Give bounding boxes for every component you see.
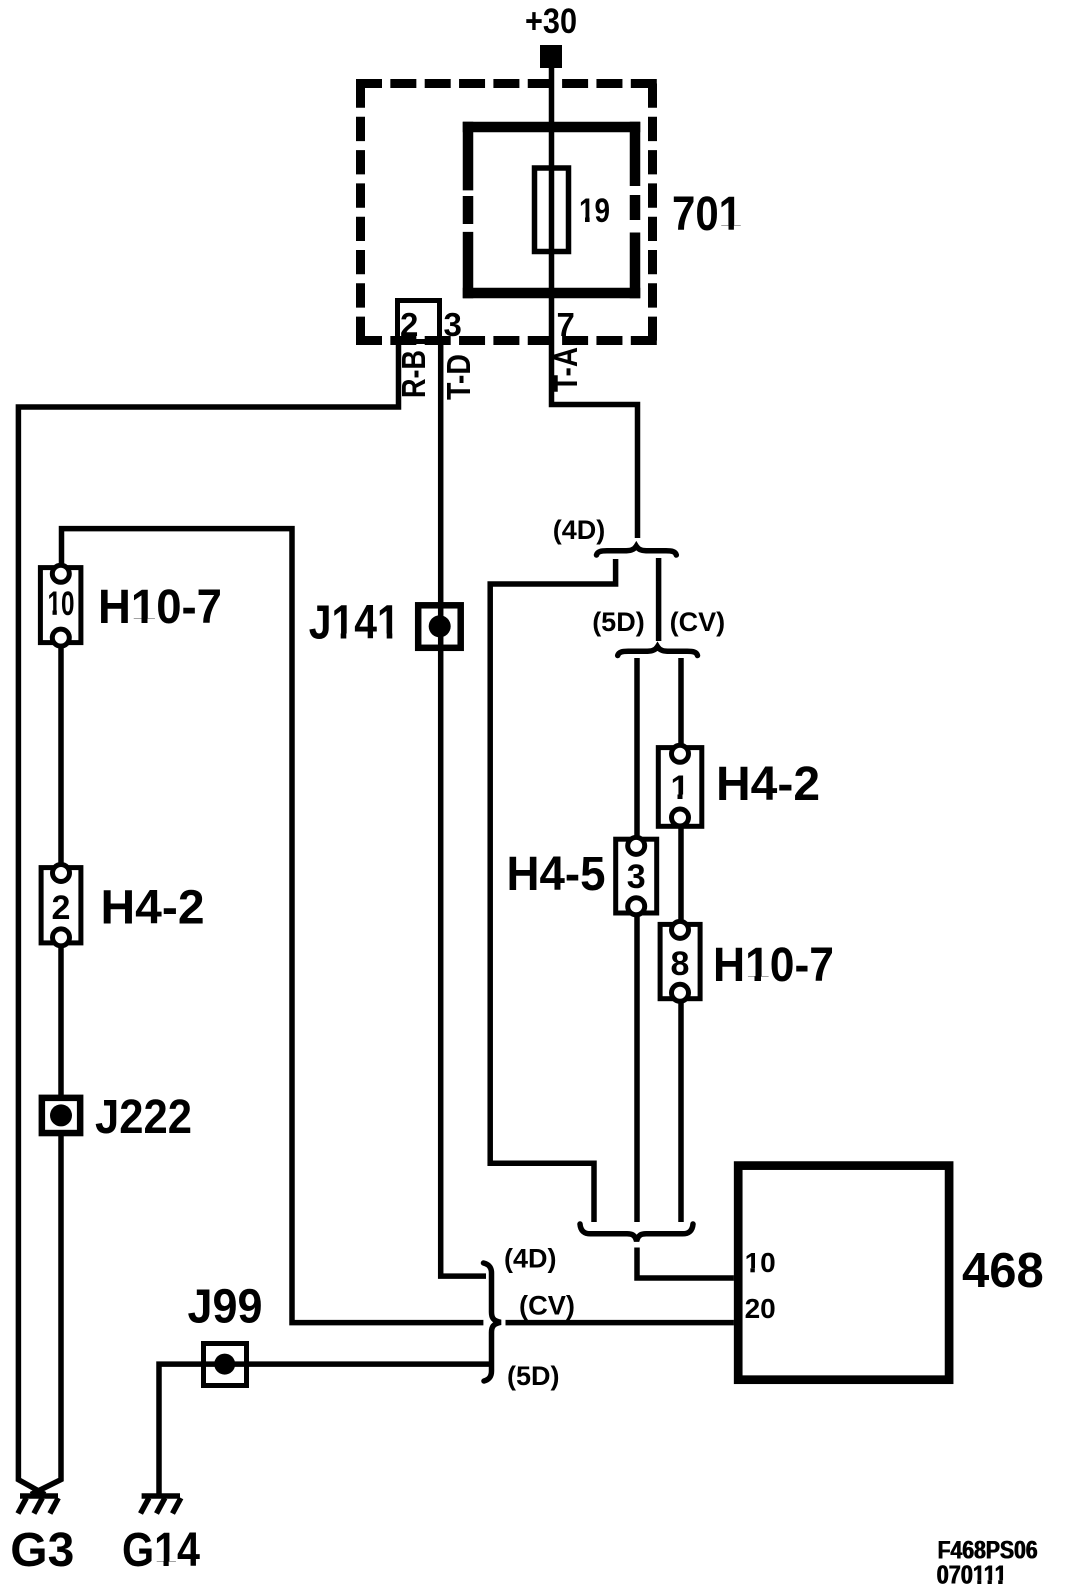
svg-text:468: 468 <box>962 1244 1044 1298</box>
J141 dot <box>429 615 451 637</box>
svg-text:070111: 070111 <box>937 1560 1007 1590</box>
wire T-A from +30 through fuse to brace <box>552 68 638 538</box>
svg-text:10: 10 <box>48 585 75 623</box>
wire 4D branch <box>490 559 615 1222</box>
ECU box 468 <box>738 1166 949 1380</box>
svg-text:H10-7: H10-7 <box>713 939 834 992</box>
svg-text:3: 3 <box>444 306 462 343</box>
svg-text:701: 701 <box>672 188 742 241</box>
J99 wire through <box>206 1361 244 1367</box>
brace4 gather to pin 20 <box>484 1263 501 1381</box>
svg-text:(4D): (4D) <box>504 1244 557 1274</box>
J141 joint box <box>418 605 461 648</box>
svg-text:T-D: T-D <box>440 354 477 400</box>
svg-text:10: 10 <box>745 1247 776 1278</box>
J99 joint box <box>204 1344 247 1386</box>
wire (5D) G14 through J99 to brace4 <box>159 1364 490 1495</box>
svg-text:(CV): (CV) <box>519 1291 575 1321</box>
ground G14 <box>141 1496 181 1514</box>
svg-text:H4-2: H4-2 <box>101 882 205 935</box>
wire brace3 to 468 pin 10 <box>637 1248 734 1279</box>
wire R-B pin2 to G3 <box>18 343 398 1495</box>
svg-text:H10-7: H10-7 <box>98 581 222 634</box>
wire to brace2 <box>656 558 662 641</box>
connector pins 2/3 rect <box>398 301 440 342</box>
svg-text:(4D): (4D) <box>553 515 606 545</box>
J222 joint <box>42 1098 80 1133</box>
svg-text:H4-5: H4-5 <box>507 848 606 901</box>
connector H4-5 pin 3 <box>616 837 657 914</box>
svg-text:J222: J222 <box>95 1091 192 1144</box>
wire left chain H10-7 to G3 <box>31 644 61 1495</box>
J99 dot <box>214 1354 235 1375</box>
svg-text:2: 2 <box>52 889 71 927</box>
svg-text:2: 2 <box>400 306 418 343</box>
svg-text:3: 3 <box>627 858 646 896</box>
ground G3 <box>18 1496 58 1514</box>
svg-text:G14: G14 <box>122 1524 200 1577</box>
svg-text:(5D): (5D) <box>592 607 645 637</box>
brace2 harness split (5D)/(CV) <box>618 647 698 656</box>
connector H10-7 pin 8 <box>660 921 700 1001</box>
svg-text:1: 1 <box>671 769 690 807</box>
connector H4-2 pin 2 <box>41 865 81 946</box>
brace3 harness gather <box>580 1224 693 1241</box>
fuse 19 symbol <box>535 168 569 252</box>
connector H10-7 pin 10 <box>40 565 81 646</box>
svg-text:G3: G3 <box>10 1524 74 1577</box>
J141 wire through <box>438 605 444 648</box>
svg-text:J141: J141 <box>309 597 400 650</box>
fuse holder box <box>463 122 641 299</box>
svg-text:8: 8 <box>671 945 690 983</box>
svg-text:19: 19 <box>579 192 610 230</box>
svg-text:20: 20 <box>745 1293 776 1324</box>
wire H10-7 pin10 top to CV line <box>62 529 484 1323</box>
wire CV branch through H4-2 and H10-7 <box>678 658 684 1222</box>
wire 5D branch through H4-5 <box>634 658 640 1222</box>
svg-text:T-A: T-A <box>547 347 584 392</box>
svg-text:+30: +30 <box>525 2 577 41</box>
svg-text:H4-2: H4-2 <box>716 758 820 811</box>
svg-text:J99: J99 <box>188 1280 263 1333</box>
relay box 701 dashed outline <box>356 84 657 341</box>
brace1 harness split (4D) <box>597 546 677 555</box>
wire CV brace4 to 468 pin 20 <box>506 1320 734 1326</box>
svg-text:(CV): (CV) <box>670 607 726 637</box>
svg-text:7: 7 <box>557 306 575 343</box>
svg-text:(5D): (5D) <box>507 1361 560 1391</box>
wire T-D pin3 through J141 to brace <box>441 343 486 1276</box>
+30 terminal square <box>540 45 562 68</box>
connector H4-2 pin 1 <box>658 745 702 826</box>
